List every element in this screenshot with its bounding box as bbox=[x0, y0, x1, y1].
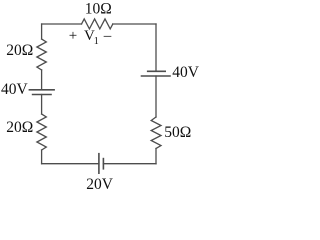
battery 20V bottom long plate bbox=[98, 154, 100, 174]
resistor 20ohm upper-left bbox=[37, 39, 46, 70]
wire left vertical middle bbox=[41, 95, 43, 115]
battery 40V right short plate bbox=[148, 70, 166, 72]
wire right vertical lower bbox=[155, 149, 157, 164]
resistor 20ohm lower-left bbox=[37, 114, 46, 150]
wire top-right horizontal bbox=[113, 23, 156, 25]
svg-text:50Ω: 50Ω bbox=[164, 124, 191, 141]
battery 40V left short plate bbox=[33, 94, 51, 96]
wire right vertical middle bbox=[155, 76, 157, 117]
wire bottom-left horizontal bbox=[42, 163, 99, 165]
wire left vertical lower bbox=[41, 150, 43, 164]
resistor 50ohm right bbox=[151, 117, 161, 149]
battery 20V bottom short plate bbox=[102, 159, 104, 169]
svg-text:20V: 20V bbox=[86, 176, 114, 193]
wire bottom-right horizontal bbox=[103, 163, 156, 165]
svg-text:40V: 40V bbox=[172, 64, 200, 81]
wire left vertical between battery and upper resistor bbox=[41, 70, 43, 90]
svg-text:10Ω: 10Ω bbox=[85, 1, 112, 18]
svg-text:+: + bbox=[69, 28, 77, 44]
wire top-left horizontal bbox=[42, 23, 82, 25]
resistor 10ohm top bbox=[82, 19, 113, 29]
wire right vertical upper bbox=[155, 24, 157, 71]
battery 40V left long plate bbox=[29, 89, 54, 91]
svg-text:20Ω: 20Ω bbox=[6, 119, 33, 136]
svg-text:–: – bbox=[103, 28, 112, 44]
svg-text:40V: 40V bbox=[1, 81, 29, 98]
wire left vertical top bbox=[41, 24, 43, 39]
battery 40V right long plate bbox=[142, 75, 171, 77]
svg-text:20Ω: 20Ω bbox=[6, 42, 33, 59]
svg-text:1: 1 bbox=[94, 36, 99, 47]
